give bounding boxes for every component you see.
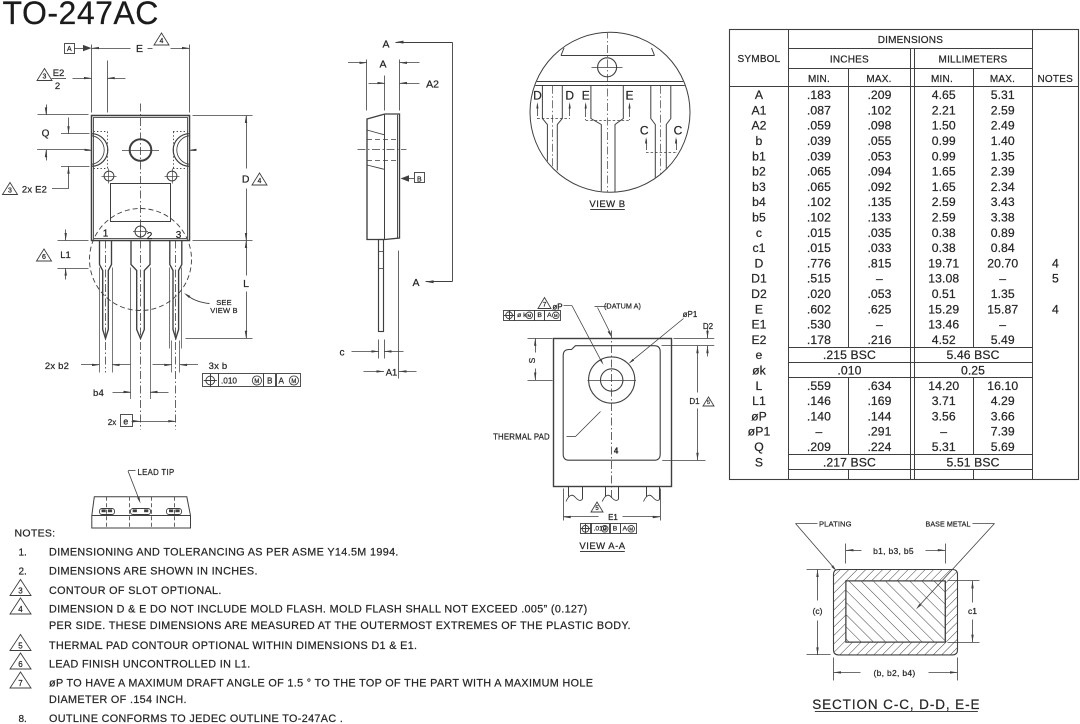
svg-text:.033: .033 <box>867 241 891 255</box>
svg-text:Q: Q <box>42 129 50 140</box>
svg-text:M: M <box>603 527 607 532</box>
svg-text:2.59: 2.59 <box>991 103 1015 117</box>
svg-text:b1: b1 <box>752 149 766 163</box>
svg-text:.102: .102 <box>807 195 831 209</box>
svg-text:4: 4 <box>258 178 262 185</box>
svg-text:.625: .625 <box>867 302 891 316</box>
svg-text:5: 5 <box>1052 272 1059 286</box>
svg-text:PLATING: PLATING <box>819 520 852 529</box>
svg-text:SYMBOL: SYMBOL <box>738 54 781 65</box>
svg-text:S: S <box>527 357 537 363</box>
svg-text:A: A <box>279 377 285 386</box>
svg-text:.102: .102 <box>807 210 831 224</box>
svg-text:A: A <box>755 88 764 102</box>
svg-text:NOTES:: NOTES: <box>15 528 56 540</box>
svg-text:4: 4 <box>18 605 23 614</box>
svg-text:7: 7 <box>543 302 547 309</box>
svg-text:0.99: 0.99 <box>932 149 956 163</box>
svg-text:2: 2 <box>147 231 153 242</box>
svg-text:A: A <box>412 277 419 289</box>
svg-text:2.39: 2.39 <box>991 165 1015 179</box>
svg-text:E2: E2 <box>751 333 766 347</box>
svg-text:1.40: 1.40 <box>991 134 1015 148</box>
svg-text:.144: .144 <box>867 409 891 423</box>
svg-text:A1: A1 <box>751 103 766 117</box>
svg-text:–: – <box>876 272 883 286</box>
svg-text:2.59: 2.59 <box>932 195 956 209</box>
svg-text:1.65: 1.65 <box>932 180 956 194</box>
svg-text:.035: .035 <box>867 226 891 240</box>
svg-text:2.: 2. <box>19 567 27 578</box>
svg-text:.015: .015 <box>807 241 831 255</box>
svg-text:.053: .053 <box>867 149 891 163</box>
svg-text:DIMENSION D & E DO NOT I: DIMENSION D & E DO NOT INCLUDE MOLD FLAS… <box>49 604 588 616</box>
svg-text:D: D <box>565 89 574 103</box>
svg-text:THERMAL PAD CONTOUR OPTIONA: THERMAL PAD CONTOUR OPTIONAL WITHIN DIME… <box>49 640 417 652</box>
svg-text:b4: b4 <box>93 388 104 399</box>
svg-text:.224: .224 <box>867 440 891 454</box>
svg-text:b2: b2 <box>752 165 766 179</box>
svg-text:16.10: 16.10 <box>987 379 1018 393</box>
svg-text:.515: .515 <box>807 272 831 286</box>
svg-text:13.08: 13.08 <box>928 272 959 286</box>
svg-text:A: A <box>379 58 386 70</box>
svg-text:D1: D1 <box>689 397 700 406</box>
svg-text:E: E <box>755 302 763 316</box>
svg-text:2x b2: 2x b2 <box>45 361 69 372</box>
svg-text:.020: .020 <box>807 287 831 301</box>
svg-text:3.56: 3.56 <box>932 409 956 423</box>
svg-text:2: 2 <box>55 81 60 92</box>
svg-text:.530: .530 <box>807 318 831 332</box>
svg-text:.053: .053 <box>867 287 891 301</box>
svg-text:c: c <box>340 347 345 358</box>
svg-text:LEAD TIP: LEAD TIP <box>138 468 175 477</box>
svg-text:MILLIMETERS: MILLIMETERS <box>939 55 1008 66</box>
svg-text:b1, b3, b5: b1, b3, b5 <box>873 546 914 556</box>
svg-text:3: 3 <box>176 230 182 241</box>
svg-text:4: 4 <box>160 38 164 45</box>
svg-text:.776: .776 <box>807 256 831 270</box>
svg-text:5.69: 5.69 <box>991 440 1015 454</box>
svg-text:E: E <box>582 89 590 103</box>
svg-text:.209: .209 <box>867 88 891 102</box>
svg-text:0.38: 0.38 <box>932 241 956 255</box>
svg-text:3: 3 <box>18 587 23 596</box>
svg-text:L1: L1 <box>60 250 71 261</box>
svg-text:E1: E1 <box>751 318 766 332</box>
svg-text:(b, b2, b4): (b, b2, b4) <box>873 668 915 678</box>
svg-text:SECTION C-C, D-D, E-E: SECTION C-C, D-D, E-E <box>812 697 980 712</box>
svg-text:.092: .092 <box>867 180 891 194</box>
svg-text:15.29: 15.29 <box>928 302 959 316</box>
svg-text:e: e <box>756 348 763 362</box>
svg-text:A1: A1 <box>386 368 398 379</box>
svg-text:b: b <box>756 134 763 148</box>
svg-text:DIMENSIONS: DIMENSIONS <box>878 35 943 46</box>
svg-text:.135: .135 <box>867 195 891 209</box>
svg-text:M: M <box>554 313 558 318</box>
svg-text:NOTES: NOTES <box>1038 74 1074 85</box>
svg-text:–: – <box>999 272 1006 286</box>
svg-text:L: L <box>756 379 763 393</box>
svg-text:3x b: 3x b <box>209 361 228 372</box>
svg-text:E2: E2 <box>53 68 65 79</box>
svg-text:b5: b5 <box>752 210 766 224</box>
svg-text:c1: c1 <box>968 606 977 616</box>
svg-text:14.20: 14.20 <box>928 379 959 393</box>
svg-text:.634: .634 <box>867 379 891 393</box>
svg-text:8.: 8. <box>19 714 27 724</box>
svg-text:MAX.: MAX. <box>990 74 1015 85</box>
svg-text:C: C <box>640 124 649 138</box>
svg-text:.169: .169 <box>867 394 891 408</box>
svg-text:A: A <box>382 39 389 51</box>
svg-text:S: S <box>755 455 763 469</box>
svg-text:D: D <box>755 256 764 270</box>
svg-text:E1: E1 <box>608 513 618 522</box>
svg-text:5.31: 5.31 <box>932 440 956 454</box>
svg-text:CONTOUR OF SLOT OPTIONAL.: CONTOUR OF SLOT OPTIONAL. <box>49 585 222 597</box>
svg-text:.010: .010 <box>221 377 237 386</box>
svg-text:2.34: 2.34 <box>991 180 1015 194</box>
svg-text:–: – <box>815 425 822 439</box>
svg-text:B: B <box>613 526 618 533</box>
svg-text:c: c <box>756 226 762 240</box>
svg-text:A: A <box>547 312 552 319</box>
svg-text:2.59: 2.59 <box>932 210 956 224</box>
svg-text:.015: .015 <box>807 226 831 240</box>
svg-text:.140: .140 <box>807 409 831 423</box>
svg-text:1.35: 1.35 <box>991 149 1015 163</box>
svg-text:OUTLINE CONFORMS TO JEDEC: OUTLINE CONFORMS TO JEDEC OUTLINE TO-247… <box>49 713 343 724</box>
svg-text:4.29: 4.29 <box>991 394 1015 408</box>
svg-text:BASE METAL: BASE METAL <box>926 521 971 529</box>
svg-text:A: A <box>623 526 628 533</box>
svg-text:5.31: 5.31 <box>991 88 1015 102</box>
svg-text:M: M <box>528 313 532 318</box>
svg-text:TO-247AC: TO-247AC <box>3 0 159 31</box>
svg-text:19.71: 19.71 <box>928 256 959 270</box>
svg-text:6: 6 <box>18 660 23 669</box>
svg-text:DIAMETER OF .154 INCH.: DIAMETER OF .154 INCH. <box>49 694 187 706</box>
svg-text:1: 1 <box>103 229 109 240</box>
svg-text:MIN.: MIN. <box>931 74 953 85</box>
svg-text:1.65: 1.65 <box>932 165 956 179</box>
svg-text:.815: .815 <box>867 256 891 270</box>
svg-text:7: 7 <box>18 679 23 688</box>
svg-text:–: – <box>999 318 1006 332</box>
svg-text:LEAD FINISH UNCONTROLLED IN: LEAD FINISH UNCONTROLLED IN L1. <box>49 659 251 671</box>
svg-text:.209: .209 <box>807 440 831 454</box>
svg-text:.065: .065 <box>807 165 831 179</box>
svg-text:VIEW B: VIEW B <box>210 306 237 315</box>
svg-text:2.21: 2.21 <box>932 103 956 117</box>
svg-text:b3: b3 <box>752 180 766 194</box>
svg-text:.602: .602 <box>807 302 831 316</box>
svg-text:3.71: 3.71 <box>932 394 956 408</box>
svg-text:4.65: 4.65 <box>932 88 956 102</box>
svg-text:(c): (c) <box>813 606 823 616</box>
svg-text:.010: .010 <box>837 363 861 377</box>
svg-text:Q: Q <box>754 440 764 454</box>
svg-text:L1: L1 <box>752 394 766 408</box>
svg-text:.094: .094 <box>867 165 891 179</box>
svg-text:e: e <box>123 417 128 427</box>
svg-text:.102: .102 <box>867 103 891 117</box>
svg-text:.216: .216 <box>867 333 891 347</box>
svg-text:1.50: 1.50 <box>932 119 956 133</box>
svg-text:20.70: 20.70 <box>987 256 1018 270</box>
svg-text:.178: .178 <box>807 333 831 347</box>
svg-text:15.87: 15.87 <box>987 302 1018 316</box>
svg-text:5.51 BSC: 5.51 BSC <box>947 455 1000 469</box>
svg-text:.559: .559 <box>807 379 831 393</box>
svg-text:.055: .055 <box>867 134 891 148</box>
svg-text:.098: .098 <box>867 119 891 133</box>
svg-text:øP TO HAVE A MAXIMUM DRAF: øP TO HAVE A MAXIMUM DRAFT ANGLE OF 1.5 … <box>49 678 593 690</box>
svg-text:0.25: 0.25 <box>961 363 985 377</box>
svg-text:2x: 2x <box>108 418 116 427</box>
svg-text:4: 4 <box>1052 256 1059 270</box>
svg-text:b4: b4 <box>752 195 766 209</box>
svg-text:0.38: 0.38 <box>932 226 956 240</box>
svg-text:3.66: 3.66 <box>991 409 1015 423</box>
svg-text:M: M <box>629 527 633 532</box>
svg-text:0.89: 0.89 <box>991 226 1015 240</box>
svg-text:.039: .039 <box>807 134 831 148</box>
svg-text:A2: A2 <box>426 78 439 90</box>
svg-text:0.51: 0.51 <box>932 287 956 301</box>
svg-text:1.35: 1.35 <box>991 287 1015 301</box>
svg-text:C: C <box>674 124 683 138</box>
svg-text:øP1: øP1 <box>748 425 771 439</box>
svg-text:2.49: 2.49 <box>991 119 1015 133</box>
svg-text:INCHES: INCHES <box>830 55 869 66</box>
svg-text:3.43: 3.43 <box>991 195 1015 209</box>
svg-text:.059: .059 <box>807 119 831 133</box>
svg-text:.065: .065 <box>807 180 831 194</box>
svg-text:–: – <box>876 318 883 332</box>
svg-text:DIMENSIONING AND TOLERANCING: DIMENSIONING AND TOLERANCING AS PER ASME… <box>49 547 399 559</box>
svg-text:E: E <box>136 43 143 55</box>
svg-text:E: E <box>625 89 633 103</box>
svg-text:–: – <box>940 425 947 439</box>
svg-text:øk: øk <box>752 363 767 377</box>
svg-text:.087: .087 <box>807 103 831 117</box>
svg-text:D2: D2 <box>703 322 714 331</box>
svg-text:D2: D2 <box>751 287 767 301</box>
svg-text:D: D <box>533 89 542 103</box>
svg-text:VIEW B: VIEW B <box>589 199 625 210</box>
svg-text:.291: .291 <box>867 425 891 439</box>
svg-text:2x E2: 2x E2 <box>22 185 47 196</box>
svg-text:0.99: 0.99 <box>932 134 956 148</box>
svg-text:MIN.: MIN. <box>808 74 830 85</box>
svg-text:D1: D1 <box>751 272 767 286</box>
svg-text:c1: c1 <box>752 241 765 255</box>
svg-text:.146: .146 <box>807 394 831 408</box>
svg-text:M: M <box>291 379 296 385</box>
svg-text:3.38: 3.38 <box>991 210 1015 224</box>
svg-text:6: 6 <box>42 254 46 261</box>
svg-text:5.46 BSC: 5.46 BSC <box>947 348 1000 362</box>
svg-text:.217 BSC: .217 BSC <box>823 455 876 469</box>
svg-text:A2: A2 <box>751 119 766 133</box>
svg-text:B: B <box>537 312 542 319</box>
svg-text:.215 BSC: .215 BSC <box>823 348 876 362</box>
svg-text:B: B <box>417 176 422 183</box>
svg-text:3: 3 <box>8 188 12 195</box>
svg-text:.133: .133 <box>867 210 891 224</box>
svg-text:4: 4 <box>1052 302 1059 316</box>
svg-text:7.39: 7.39 <box>991 425 1015 439</box>
svg-text:13.46: 13.46 <box>928 318 959 332</box>
svg-text:øP: øP <box>751 409 767 423</box>
svg-text:øP1: øP1 <box>683 310 698 319</box>
svg-text:THERMAL PAD: THERMAL PAD <box>493 433 550 442</box>
svg-text:DIMENSIONS ARE SHOWN IN IN: DIMENSIONS ARE SHOWN IN INCHES. <box>49 566 258 578</box>
svg-text:4: 4 <box>614 447 619 456</box>
svg-text:5: 5 <box>18 642 23 651</box>
svg-text:D: D <box>242 174 250 186</box>
svg-text:1.: 1. <box>19 548 27 559</box>
svg-text:.039: .039 <box>807 149 831 163</box>
svg-text:L: L <box>243 278 249 290</box>
svg-text:.183: .183 <box>807 88 831 102</box>
svg-text:3: 3 <box>43 74 47 81</box>
svg-text:4.52: 4.52 <box>932 333 956 347</box>
svg-text:VIEW A-A: VIEW A-A <box>579 541 625 552</box>
svg-text:M: M <box>254 379 259 385</box>
svg-text:MAX.: MAX. <box>866 74 891 85</box>
svg-text:5.49: 5.49 <box>991 333 1015 347</box>
svg-text:A: A <box>67 46 72 53</box>
svg-text:B: B <box>267 377 273 386</box>
svg-text:PER SIDE. THESE DIMENSIONS: PER SIDE. THESE DIMENSIONS ARE MEASURED … <box>49 620 631 632</box>
svg-text:0.84: 0.84 <box>991 241 1015 255</box>
svg-text:(DATUM A): (DATUM A) <box>604 302 641 311</box>
svg-text:5: 5 <box>707 400 710 406</box>
